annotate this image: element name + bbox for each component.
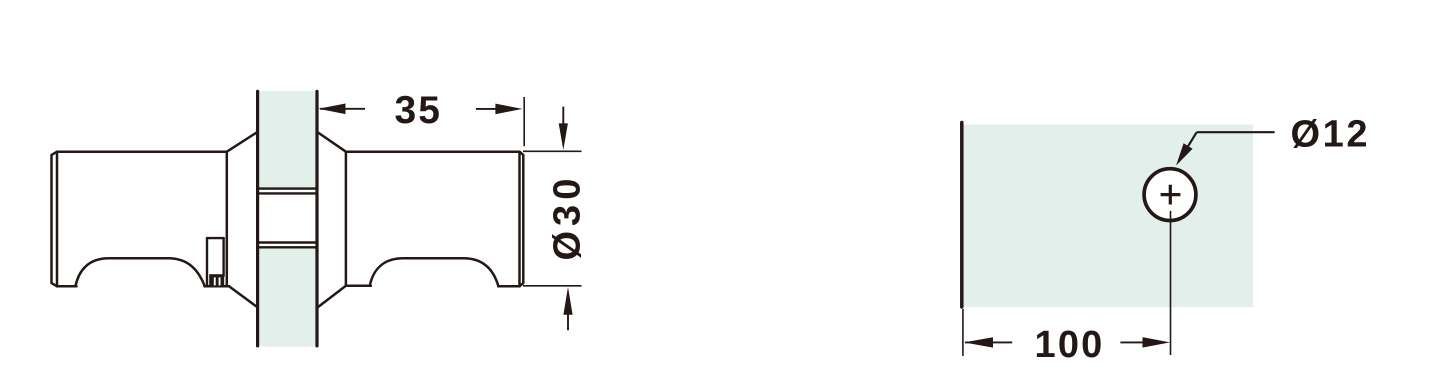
- leader horizontal line: [1197, 131, 1275, 133]
- dim 100 right arrowhead: [1143, 337, 1171, 347]
- right knob top edge: [346, 150, 520, 153]
- svg-text:Ø30: Ø30: [547, 174, 589, 261]
- right view: glass edge thick line: [960, 123, 964, 308]
- right knob flange right edge: [345, 152, 348, 286]
- dim D30 top arrowhead (down): [559, 123, 568, 150]
- right knob flange bottom diagonal: [318, 286, 346, 307]
- left knob bottom edge right segment: [205, 285, 230, 288]
- dim 100 left arrowhead: [964, 337, 993, 347]
- dim D30 top extension line: [523, 150, 582, 152]
- knob shaft line bottom inner: [256, 241, 318, 243]
- dim 100 right arrow stem: [1120, 341, 1144, 343]
- dim D30 bottom arrow stem: [567, 312, 569, 330]
- dim 100 left extension line: [962, 309, 964, 356]
- latch detail rectangle: [207, 238, 224, 286]
- dim 35 right arrowhead: [495, 104, 522, 115]
- svg-text:35: 35: [395, 89, 442, 132]
- hole circle: [1144, 169, 1196, 221]
- right view: glass panel fill: [963, 125, 1253, 307]
- hole center line down: [1170, 211, 1172, 355]
- latch knurl slot 2: [219, 277, 221, 285]
- dim D30 top arrow stem: [562, 107, 564, 126]
- latch knurl slot 1: [214, 277, 216, 285]
- left knob finger groove arc: [76, 258, 205, 286]
- latch knurl block: [209, 274, 224, 285]
- left knob flange top diagonal: [227, 132, 257, 151]
- glass hole edge line top outer: [256, 187, 318, 189]
- svg-text:Ø12: Ø12: [1291, 113, 1371, 155]
- glass hole white gap: [256, 190, 319, 246]
- glass left surface line: [256, 91, 259, 346]
- hole center cross horizontal: [1161, 193, 1181, 196]
- right knob end cap inner line: [518, 152, 521, 287]
- dim 100 left arrow stem: [965, 341, 1012, 343]
- dim 35 right arrow stem: [476, 108, 498, 110]
- leader arrowhead: [1176, 143, 1193, 165]
- hole center cross vertical: [1169, 185, 1172, 205]
- dim D30 bottom extension line: [523, 285, 582, 287]
- right knob bottom edge right segment: [498, 285, 519, 288]
- right knob bottom edge left segment: [346, 285, 371, 288]
- right knob body outline: [318, 132, 524, 307]
- right knob end cap outer edge: [520, 152, 524, 287]
- dim 35 extension line: [523, 97, 525, 146]
- left knob body right edge: [226, 152, 229, 287]
- glass hole edge line bottom outer: [256, 246, 318, 248]
- dim 35 left arrowhead: [318, 104, 345, 115]
- glass right surface line: [315, 91, 318, 346]
- left knob body outline: [52, 132, 258, 307]
- leader diagonal line: [1179, 132, 1197, 161]
- right knob finger groove arc: [370, 258, 499, 286]
- right knob flange top diagonal: [318, 132, 346, 151]
- knob shaft line top inner: [256, 192, 318, 194]
- dim 35 left arrow stem: [320, 108, 365, 110]
- dim D30 bottom arrowhead (up): [563, 287, 572, 315]
- left knob bottom edge left segment: [57, 285, 77, 288]
- left knob end cap outer edge: [52, 152, 58, 287]
- left knob flange bottom diagonal: [229, 286, 257, 307]
- left knob top edge: [57, 150, 227, 153]
- left knob end cap inner line: [56, 152, 59, 287]
- glass panel (side view) fill: [258, 91, 317, 347]
- svg-text:100: 100: [1035, 324, 1105, 366]
